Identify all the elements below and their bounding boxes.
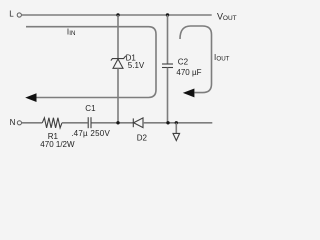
node N terminal label: [10, 118, 16, 127]
label 5.1V: [128, 61, 145, 70]
svg-text:.47µ 250V: .47µ 250V: [71, 129, 110, 138]
node L terminal circle: [17, 13, 21, 17]
svg-text:N: N: [10, 118, 16, 127]
node L terminal label: [9, 10, 14, 19]
svg-text:OUT: OUT: [216, 55, 229, 62]
svg-text:5.1V: 5.1V: [128, 61, 145, 70]
label C2: [178, 58, 189, 67]
ground: [173, 123, 180, 141]
wire R1 to C1: [62, 122, 88, 124]
node VOUT label: [217, 12, 237, 23]
junction dot bottom at C2: [166, 121, 169, 124]
svg-text:OUT: OUT: [223, 15, 237, 22]
svg-text:470 µF: 470 µF: [176, 68, 201, 77]
wire top rail L to VOUT: [22, 14, 212, 16]
label 470 uF: [176, 68, 201, 77]
wire D2 to end: [143, 122, 212, 124]
svg-text:C2: C2: [178, 58, 189, 67]
label D2: [137, 133, 148, 142]
wire: [117, 68, 119, 123]
junction dot top at C2: [166, 13, 169, 16]
zener diode D1: [111, 15, 126, 123]
junction dot bottom at D1: [116, 121, 119, 124]
node N terminal circle: [17, 121, 21, 125]
svg-text:C1: C1: [85, 104, 96, 113]
svg-text:IN: IN: [69, 30, 75, 37]
diode D2: [133, 118, 143, 128]
resistor R1: [42, 118, 62, 128]
wire N to R1: [22, 122, 43, 124]
capacitor C1: [88, 117, 91, 128]
svg-text:L: L: [9, 10, 14, 19]
label 470 1/2W: [40, 140, 75, 149]
label IIN: [67, 28, 76, 37]
wire: [117, 15, 119, 59]
label .47u 250V: [71, 129, 110, 138]
triangle: [113, 59, 123, 68]
wire C1 to D2: [92, 122, 134, 124]
junction dot top at D1: [116, 13, 119, 16]
current loop IOUT: [180, 26, 212, 97]
label C1: [85, 104, 96, 113]
capacitor C2: [162, 15, 173, 123]
svg-text:D2: D2: [137, 133, 148, 142]
label R1: [48, 132, 59, 141]
svg-text:470 1/2W: 470 1/2W: [40, 140, 75, 149]
current loop IIN: [25, 27, 156, 102]
cathode bar with zener ticks: [111, 56, 126, 61]
junction dot bottom at ground: [175, 121, 178, 124]
label IOUT: [214, 53, 230, 62]
label D1: [126, 53, 137, 62]
